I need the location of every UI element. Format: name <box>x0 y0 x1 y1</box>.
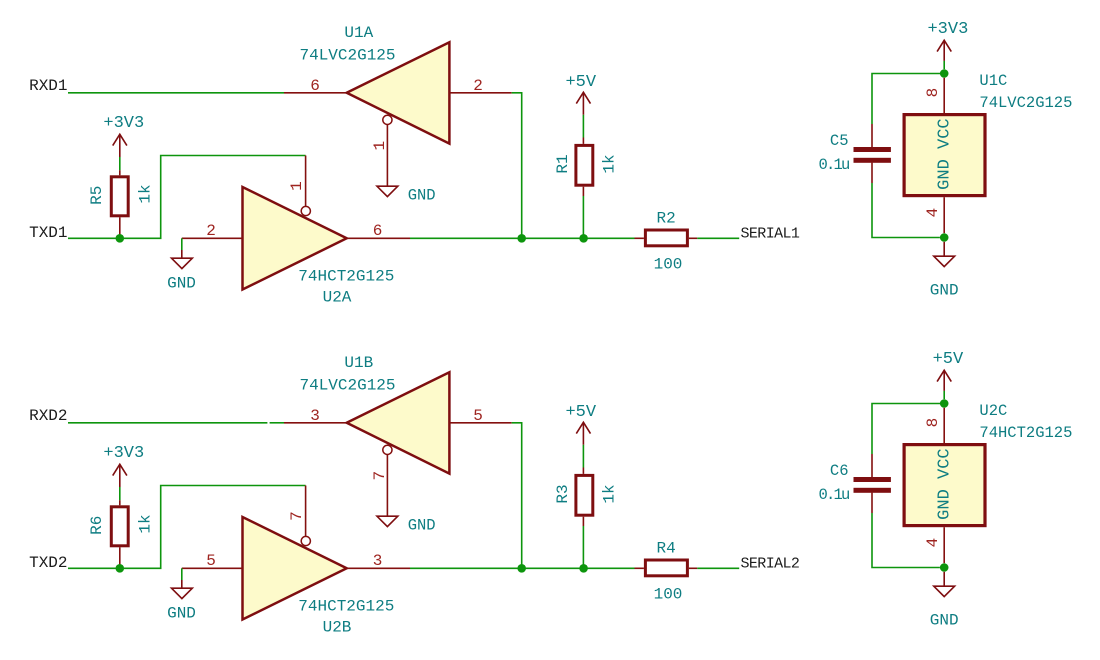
svg-text:74HCT2G125: 74HCT2G125 <box>298 598 394 616</box>
wire +5V to R1 <box>582 115 584 138</box>
svg-text:C6: C6 <box>830 462 849 480</box>
svg-text:74LVC2G125: 74LVC2G125 <box>299 47 395 65</box>
svg-text:+5V: +5V <box>565 73 596 92</box>
resistor R1 1k <box>582 138 584 144</box>
svg-text:R5: R5 <box>88 186 106 205</box>
wire RXD1 to U1 input <box>68 92 284 94</box>
wire R3 to serial <box>582 526 584 568</box>
svg-text:U2B: U2B <box>323 619 352 637</box>
svg-text:74LVC2G125: 74LVC2G125 <box>299 377 395 395</box>
U2A input pin 2 <box>182 237 243 239</box>
U2B output pin 3 <box>347 567 410 569</box>
svg-text:TXD2: TXD2 <box>29 554 67 572</box>
U1C pin 8 VCC <box>943 78 945 113</box>
svg-text:GND: GND <box>930 612 959 630</box>
junction serial/R1 <box>579 234 588 243</box>
svg-text:2: 2 <box>473 77 483 95</box>
wire TXD2 to U2B enable <box>68 486 306 569</box>
U2B enable pin 7 <box>305 486 307 537</box>
svg-text:+3V3: +3V3 <box>103 444 144 463</box>
U1B enable bubble <box>383 445 392 454</box>
junction +3V3/C5 <box>940 69 949 78</box>
wire U2A input to ground <box>181 238 183 250</box>
wire capacitor C5 bottom to junction <box>872 183 940 238</box>
U2B input pin 5 <box>182 567 243 569</box>
svg-text:2: 2 <box>206 222 216 240</box>
capacitor C5 0.1u <box>871 124 873 147</box>
resistor R5 1k <box>119 170 121 175</box>
svg-text:7: 7 <box>371 471 389 481</box>
ground symbol at U2B input <box>181 580 183 588</box>
svg-text:74HCT2G125: 74HCT2G125 <box>298 268 394 286</box>
svg-text:SERIAL1: SERIAL1 <box>741 226 800 243</box>
svg-text:5: 5 <box>206 552 216 570</box>
junction TXD2/R6 <box>116 564 125 573</box>
wire +3V3 to junction <box>943 61 945 69</box>
U1A input pin 6 <box>284 92 347 94</box>
svg-text:1: 1 <box>371 141 389 151</box>
junction +5V/C6 <box>940 399 949 408</box>
wire to capacitor C5 top <box>872 74 944 125</box>
serial wire <box>410 567 635 569</box>
junction serial/U1A <box>517 234 526 243</box>
ground symbol at U2A input <box>181 250 183 258</box>
buffer U1B body <box>347 372 450 473</box>
junction GND/C6 <box>940 563 949 572</box>
wire to capacitor C6 top <box>872 404 944 455</box>
wire U1B output down to serial line <box>512 423 522 569</box>
svg-text:GND: GND <box>167 604 196 622</box>
svg-text:GND VCC: GND VCC <box>936 448 955 519</box>
svg-text:7: 7 <box>288 511 306 521</box>
svg-text:6: 6 <box>310 77 320 95</box>
svg-text:0.1u: 0.1u <box>818 486 849 504</box>
capacitor C6 0.1u <box>871 454 873 477</box>
svg-text:4: 4 <box>924 208 942 218</box>
power unit U1C body <box>904 115 985 196</box>
resistor R6 1k <box>119 500 121 505</box>
buffer U1A body <box>347 42 450 143</box>
buffer U2A body <box>243 187 347 290</box>
power unit U2C body <box>904 445 985 526</box>
svg-text:74HCT2G125: 74HCT2G125 <box>979 424 1072 442</box>
wire +5V to junction <box>943 391 945 399</box>
svg-text:U2A: U2A <box>323 289 352 307</box>
resistor R3 1k <box>582 468 584 474</box>
svg-text:1k: 1k <box>137 184 155 203</box>
U1A output pin 2 <box>449 92 511 94</box>
svg-text:8: 8 <box>924 418 942 428</box>
svg-text:4: 4 <box>924 538 942 548</box>
U2C pin 4 GND <box>943 527 945 563</box>
svg-text:GND: GND <box>930 282 959 300</box>
svg-text:GND: GND <box>167 274 196 292</box>
junction TXD1/R5 <box>116 234 125 243</box>
U1B enable pin 7 <box>386 454 388 516</box>
wire +5V to R3 <box>582 445 584 468</box>
svg-text:1k: 1k <box>137 514 155 533</box>
buffer U2B body <box>243 517 347 620</box>
svg-text:R2: R2 <box>656 209 675 227</box>
svg-text:5: 5 <box>473 407 483 425</box>
svg-text:+5V: +5V <box>933 350 964 369</box>
ground symbol under U1B <box>377 516 398 526</box>
svg-text:R4: R4 <box>656 539 675 557</box>
svg-text:100: 100 <box>654 585 683 603</box>
junction serial/R3 <box>579 564 588 573</box>
U2A output pin 6 <box>347 237 410 239</box>
wire R1 to serial <box>582 196 584 238</box>
svg-text:U2C: U2C <box>979 402 1007 420</box>
svg-text:GND: GND <box>408 516 436 534</box>
svg-text:GND: GND <box>408 186 436 204</box>
wire R2 to SERIAL1 <box>697 237 739 239</box>
svg-text:RXD2: RXD2 <box>29 407 67 425</box>
svg-text:1: 1 <box>288 181 306 191</box>
wire TXD1 to U2A enable <box>68 156 306 239</box>
junction serial/U1B <box>517 564 526 573</box>
svg-text:U1A: U1A <box>344 24 373 42</box>
svg-text:+3V3: +3V3 <box>103 114 144 133</box>
svg-text:8: 8 <box>924 88 942 98</box>
svg-text:0.1u: 0.1u <box>818 156 849 174</box>
svg-text:+5V: +5V <box>565 403 596 422</box>
U1B input pin 3 <box>284 422 347 424</box>
U2B enable bubble <box>301 536 310 545</box>
U1C pin 4 GND <box>943 197 945 233</box>
wire U2B input to ground <box>181 568 183 580</box>
wire +3V3 to R6 <box>119 487 121 500</box>
U1A enable pin 1 <box>386 124 388 186</box>
svg-text:RXD1: RXD1 <box>29 77 67 95</box>
svg-text:U1B: U1B <box>344 354 373 372</box>
svg-text:C5: C5 <box>830 132 849 150</box>
svg-text:1k: 1k <box>601 484 619 503</box>
ground symbol under U1A <box>377 186 398 196</box>
svg-text:6: 6 <box>373 222 383 240</box>
wire +3V3 to R5 <box>119 157 121 170</box>
junction GND/C5 <box>940 233 949 242</box>
svg-text:3: 3 <box>373 552 383 570</box>
wire capacitor C6 bottom to junction <box>872 513 940 568</box>
ground symbol under U2C <box>943 572 945 586</box>
svg-text:74LVC2G125: 74LVC2G125 <box>979 94 1072 112</box>
svg-text:+3V3: +3V3 <box>927 20 968 39</box>
resistor R4 100 <box>635 567 644 569</box>
ground symbol under U1C <box>943 242 945 256</box>
svg-text:R3: R3 <box>554 484 572 503</box>
svg-text:100: 100 <box>654 255 683 273</box>
serial wire <box>410 237 635 239</box>
U2C pin 8 VCC <box>943 408 945 443</box>
wire R4 to SERIAL2 <box>697 567 739 569</box>
U2A enable pin 1 <box>305 156 307 207</box>
resistor R2 100 <box>635 237 644 239</box>
svg-text:R6: R6 <box>88 516 106 535</box>
wire RXD2 to U1 input <box>68 422 267 424</box>
svg-text:GND VCC: GND VCC <box>936 118 955 189</box>
wire U1A output down to serial line <box>512 93 522 239</box>
svg-text:R1: R1 <box>554 154 572 173</box>
svg-text:1k: 1k <box>601 154 619 173</box>
svg-text:TXD1: TXD1 <box>29 224 67 242</box>
U2A enable bubble <box>301 206 310 215</box>
svg-text:3: 3 <box>310 407 320 425</box>
U1B output pin 5 <box>449 422 511 424</box>
U1A enable bubble <box>383 115 392 124</box>
svg-text:U1C: U1C <box>979 72 1007 90</box>
svg-text:SERIAL2: SERIAL2 <box>741 556 800 573</box>
